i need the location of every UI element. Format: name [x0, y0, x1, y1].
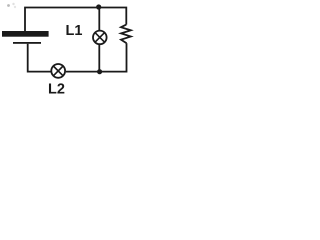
- wire: bottom rail between L2 and L1 branch: [66, 71, 126, 73]
- node: junction dot top rail: [96, 4, 101, 9]
- resistor R1 zigzag: [121, 25, 131, 44]
- wire: battery negative down to bottom rail, left segment: [28, 44, 51, 72]
- wire: L1 branch vertical: [98, 8, 100, 31]
- battery B1 bottom plate (short thin): [13, 42, 41, 44]
- node: junction dot bottom rail: [97, 69, 102, 74]
- wire: top rail with left and right drops: [25, 8, 126, 32]
- lamp L1: [93, 31, 107, 45]
- lamp L2: [51, 64, 65, 78]
- battery B1 top plate (long thick): [2, 31, 49, 37]
- wire: right side below resistor: [126, 43, 128, 72]
- svg-text:L2: L2: [48, 81, 65, 96]
- smudge artifact top-left: [7, 3, 16, 8]
- svg-text:L1: L1: [66, 23, 83, 39]
